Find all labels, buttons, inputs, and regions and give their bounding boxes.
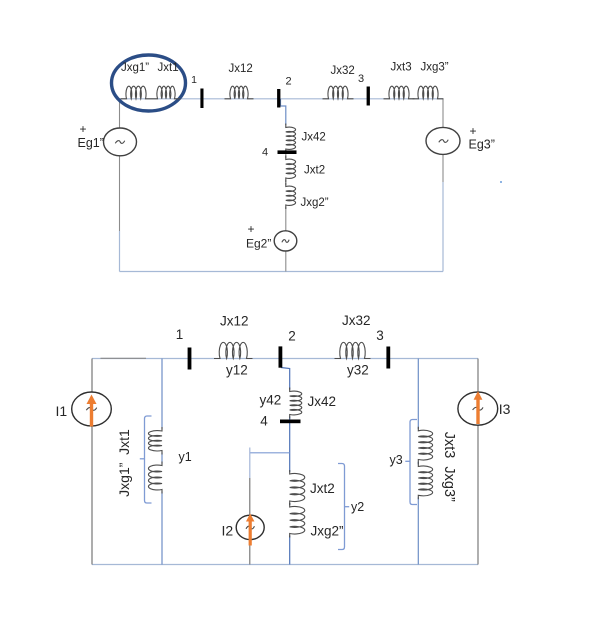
svg-text:Jxg1” Jxt1: Jxg1” Jxt1 (116, 429, 132, 497)
svg-text:Jxt3 Jxg3”: Jxt3 Jxg3” (441, 432, 457, 502)
svg-text:Eg1”: Eg1” (78, 136, 104, 150)
svg-text:Jxg2”: Jxg2” (301, 197, 329, 209)
svg-text:I2: I2 (222, 523, 234, 539)
svg-text:+: + (469, 124, 476, 138)
svg-text:Eg3”: Eg3” (469, 138, 495, 152)
svg-text:Jxt3: Jxt3 (391, 62, 412, 74)
svg-text:Jxt1: Jxt1 (158, 62, 179, 74)
svg-text:y42: y42 (260, 393, 282, 408)
svg-text:I1: I1 (56, 403, 68, 419)
svg-text:y1: y1 (179, 450, 192, 464)
svg-text:Jx42: Jx42 (302, 132, 326, 144)
svg-text:Jx32: Jx32 (331, 65, 355, 77)
svg-text:I3: I3 (499, 401, 511, 417)
svg-text:y2: y2 (351, 500, 364, 514)
svg-text:4: 4 (260, 414, 268, 429)
svg-text:+: + (79, 122, 86, 136)
svg-text:y12: y12 (226, 363, 248, 378)
svg-text:Jx32: Jx32 (342, 313, 371, 328)
svg-text:Jx12: Jx12 (220, 314, 249, 329)
svg-text:y3: y3 (390, 453, 403, 467)
svg-text:Jxt2: Jxt2 (310, 481, 335, 496)
svg-text:3: 3 (376, 328, 384, 343)
svg-text:Jxg2”: Jxg2” (311, 524, 344, 539)
svg-text:1: 1 (176, 327, 184, 342)
svg-text:Jx42: Jx42 (308, 394, 337, 409)
svg-text:1: 1 (191, 74, 197, 86)
svg-text:2: 2 (288, 329, 296, 344)
svg-text:Jxg1”: Jxg1” (121, 62, 149, 74)
svg-text:3: 3 (358, 73, 364, 85)
svg-text:2: 2 (286, 76, 292, 88)
svg-text:Jx12: Jx12 (229, 63, 253, 75)
svg-text:Jxg3”: Jxg3” (421, 62, 449, 74)
svg-text:+: + (247, 222, 254, 236)
svg-text:y32: y32 (347, 363, 369, 378)
svg-text:4: 4 (262, 147, 268, 159)
svg-text:Eg2”: Eg2” (246, 237, 271, 251)
svg-text:Jxt2: Jxt2 (304, 165, 325, 177)
